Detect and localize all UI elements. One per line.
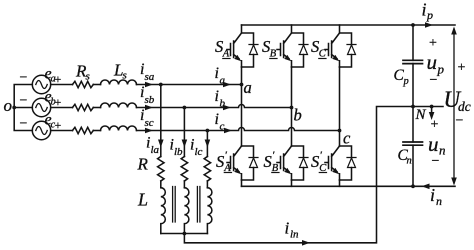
junction dot node o	[12, 106, 16, 110]
svg-text:+: +	[55, 95, 62, 109]
load branch b wire	[183, 108, 185, 157]
switch SB' cell frame	[292, 146, 304, 180]
svg-text:a: a	[244, 78, 252, 97]
svg-text:c: c	[343, 129, 351, 148]
source eb	[32, 98, 50, 116]
svg-text:−: −	[20, 71, 28, 86]
inductor Ls phase c	[101, 126, 137, 131]
source ec	[32, 121, 50, 139]
svg-text:c: c	[220, 121, 225, 133]
magnetic core lines between branch b and c	[197, 187, 200, 223]
arrow isa	[145, 82, 153, 88]
svg-text:′: ′	[320, 150, 323, 162]
junction dot load tap b	[183, 106, 187, 110]
svg-text:i: i	[430, 185, 435, 205]
junction dot node b	[290, 106, 294, 110]
svg-text:−: −	[456, 114, 464, 129]
IGBT SB' emitter arrow	[284, 168, 291, 174]
load branch a wire	[160, 85, 162, 157]
source ea	[32, 75, 50, 93]
wire phase c source to Rs	[51, 130, 73, 132]
leg B bottom segment	[291, 180, 293, 186]
svg-text:B: B	[270, 49, 277, 60]
arrow Udc bottom	[451, 178, 457, 186]
inductor L branch a	[161, 188, 166, 234]
arrow Udc top	[451, 27, 457, 35]
load branch c wire	[206, 131, 208, 157]
inductor L branch c	[207, 188, 212, 234]
arrow ia	[223, 82, 231, 88]
arrow isb	[145, 105, 153, 111]
wire phase a to node a	[137, 84, 242, 86]
svg-text:+: +	[429, 36, 437, 51]
antiparallel diode of SB'	[299, 158, 308, 168]
magnetic core lines between branch a and b	[173, 187, 176, 223]
svg-text:+: +	[431, 118, 439, 133]
inductor Ls phase b	[101, 103, 137, 108]
arrow iln	[302, 240, 310, 246]
capacitor Cp plates	[403, 60, 423, 63]
svg-text:A: A	[222, 49, 230, 60]
antiparallel diode of SB	[299, 45, 308, 55]
IGBT SC'	[325, 146, 340, 180]
capacitor branch upper wire	[412, 25, 414, 60]
svg-text:−: −	[20, 94, 28, 109]
svg-text:i: i	[422, 0, 427, 20]
svg-text:S: S	[311, 152, 319, 171]
IGBT SC' emitter arrow	[332, 168, 339, 174]
arrow N stub	[429, 112, 435, 120]
resistor Rs phase b	[73, 104, 94, 110]
IGBT SB emitter arrow	[284, 55, 291, 61]
leg A	[241, 67, 243, 146]
wire	[93, 107, 100, 109]
svg-text:R: R	[137, 155, 149, 174]
N current stub	[431, 107, 433, 115]
top DC rail	[242, 24, 456, 26]
svg-text:s: s	[86, 71, 90, 83]
IGBT SA emitter arrow	[234, 55, 241, 61]
svg-text:sc: sc	[145, 117, 154, 129]
wire	[160, 181, 162, 188]
svg-text:p: p	[426, 8, 433, 22]
switch SB cell frame	[292, 25, 304, 67]
leg A bottom segment	[241, 180, 243, 186]
svg-text:+: +	[55, 118, 62, 132]
svg-text:dc: dc	[458, 99, 471, 114]
resistor R branch a	[158, 157, 164, 182]
svg-text:n: n	[439, 143, 446, 158]
IGBT SB'	[277, 146, 292, 180]
antiparallel diode of SA'	[249, 158, 258, 168]
switch SA' cell frame	[242, 146, 254, 180]
svg-text:b: b	[220, 98, 226, 110]
wire phase a source to Rs	[51, 84, 73, 86]
svg-text:p: p	[437, 62, 445, 77]
svg-text:a: a	[220, 75, 226, 87]
svg-text:n: n	[436, 194, 442, 208]
antiparallel diode of SC'	[347, 158, 356, 168]
svg-text:s: s	[123, 70, 127, 82]
arrow ic	[224, 128, 232, 134]
svg-text:i: i	[215, 65, 219, 82]
svg-text:i: i	[215, 88, 219, 105]
wire phase b to node b with hop over leg A	[137, 105, 292, 108]
svg-text:−: −	[20, 117, 28, 132]
IGBT SA'	[227, 146, 242, 180]
svg-text:p: p	[403, 76, 409, 87]
svg-text:u: u	[428, 132, 439, 156]
wire phase b source to Rs	[51, 107, 73, 109]
junction dot N stub	[430, 105, 434, 109]
junction dot top rail capacitor	[411, 23, 415, 27]
svg-text:n: n	[407, 156, 412, 167]
IGBT SA' emitter arrow	[234, 168, 241, 174]
capacitor branch middle wire	[412, 64, 414, 142]
junction dot node a	[240, 83, 244, 87]
bottom DC rail	[242, 185, 456, 187]
svg-text:′: ′	[272, 150, 275, 162]
inductor Ls phase a	[101, 80, 137, 85]
svg-text:la: la	[151, 144, 160, 156]
svg-text:+: +	[55, 72, 62, 86]
arrow in	[422, 184, 430, 190]
wire phase c to node c with hops over legs A and B	[137, 128, 340, 131]
svg-text:o: o	[4, 96, 13, 115]
junction dot bottom rail capacitor	[411, 184, 415, 188]
switch SC' cell frame	[340, 146, 352, 180]
wire	[183, 181, 185, 188]
junction dot load tap c	[206, 129, 210, 133]
svg-text:i: i	[285, 219, 290, 238]
arrow ip	[425, 22, 433, 28]
arrow ilb	[182, 140, 188, 148]
wire	[93, 130, 100, 132]
svg-text:+: +	[458, 61, 466, 76]
junction dot node c	[338, 129, 342, 133]
svg-text:lb: lb	[174, 146, 183, 158]
junction dot load tap a	[159, 83, 163, 87]
svg-text:S: S	[264, 152, 272, 171]
IGBT SC	[325, 33, 340, 67]
svg-text:ln: ln	[290, 229, 299, 241]
svg-text:L: L	[137, 190, 148, 210]
svg-text:sa: sa	[145, 71, 155, 83]
node o bus	[14, 85, 32, 131]
antiparallel diode of SA	[249, 45, 258, 55]
capacitor branch lower wire	[412, 145, 414, 186]
resistor R branch c	[204, 157, 210, 182]
IGBT SA	[227, 33, 242, 67]
junction dot load neutral	[183, 232, 187, 236]
switch SA cell frame	[242, 25, 254, 67]
wire	[206, 181, 208, 188]
svg-text:u: u	[427, 50, 438, 74]
neutral wire iln to N	[184, 107, 443, 243]
antiparallel diode of SC	[347, 45, 356, 55]
Udc measurement arrow line	[453, 29, 455, 183]
wire	[93, 84, 100, 86]
svg-text:N: N	[415, 107, 427, 123]
arrow ila	[158, 140, 164, 148]
IGBT SB	[277, 33, 292, 67]
junction dot N	[411, 105, 415, 109]
leg B upper segment	[291, 67, 293, 146]
arrow ib	[223, 105, 231, 111]
svg-text:sb: sb	[145, 94, 155, 106]
resistor Rs phase a	[73, 81, 94, 87]
resistor R branch b	[181, 157, 187, 182]
leg C upper segment	[339, 67, 341, 146]
resistor Rs phase c	[73, 127, 94, 133]
arrow ilc	[205, 140, 211, 148]
inductor L branch b	[184, 188, 189, 234]
arrow isc	[145, 128, 153, 134]
svg-text:i: i	[215, 111, 219, 128]
leg C bottom segment	[339, 180, 341, 186]
svg-text:−: −	[432, 154, 440, 169]
svg-text:C: C	[319, 49, 327, 60]
svg-text:S: S	[216, 152, 224, 171]
load bottom bar	[161, 233, 208, 235]
switch SC cell frame	[340, 25, 352, 67]
IGBT SC emitter arrow	[332, 55, 339, 61]
svg-text:lc: lc	[195, 146, 203, 158]
capacitor Cn plates	[403, 142, 423, 145]
svg-text:′: ′	[225, 150, 228, 162]
svg-text:−: −	[430, 73, 438, 88]
svg-text:b: b	[294, 106, 302, 125]
